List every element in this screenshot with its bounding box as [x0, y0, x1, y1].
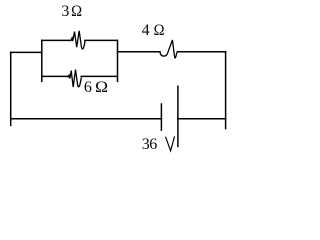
- svg-text:3: 3: [61, 3, 69, 20]
- svg-text:Ω: Ω: [154, 22, 165, 40]
- svg-text:Ω: Ω: [71, 3, 82, 21]
- svg-text:36: 36: [142, 136, 158, 153]
- svg-text:6: 6: [84, 79, 92, 96]
- svg-text:4: 4: [142, 22, 150, 39]
- svg-text:Ω: Ω: [95, 78, 108, 96]
